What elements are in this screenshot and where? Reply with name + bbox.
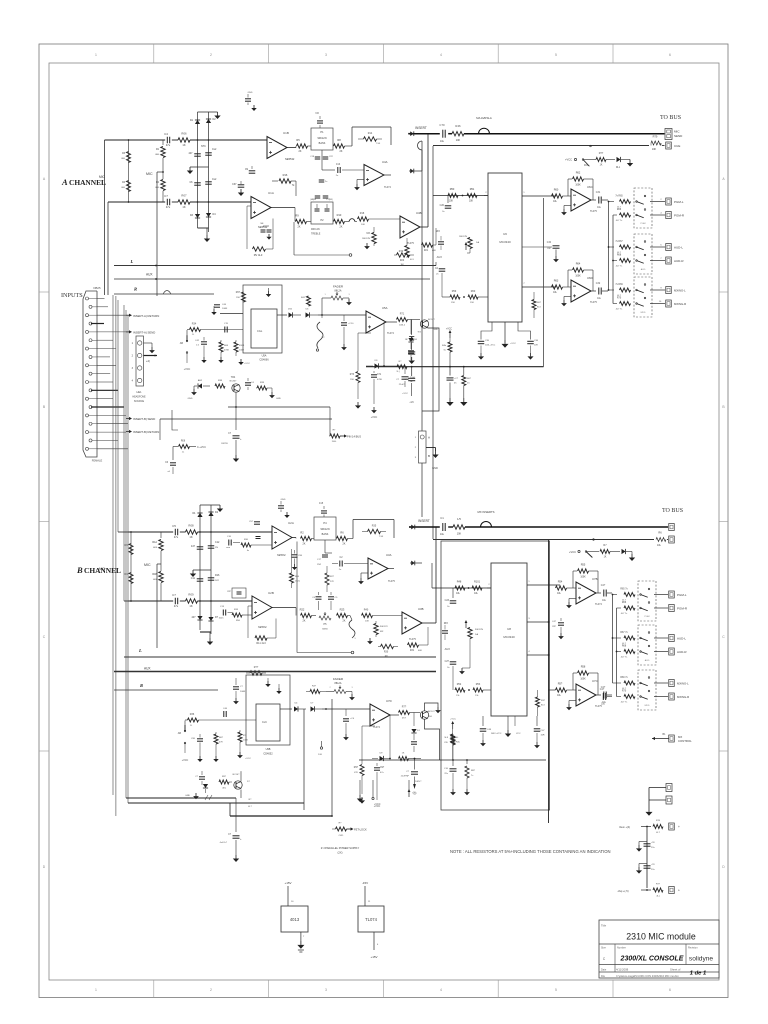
mute emitter wire down to C7 cap <box>235 393 237 431</box>
svg-text:R14: R14 <box>368 132 373 135</box>
B fader cap C with ground left <box>233 686 239 688</box>
resistor R3B vertical <box>129 544 133 555</box>
wire from -15V to TL074 <box>364 886 366 906</box>
svg-text:-Vap +(-5): -Vap +(-5) <box>617 889 629 893</box>
B AUD-R switch <box>640 651 642 653</box>
resistor R48 B <box>455 586 465 590</box>
resistor R2 vertical <box>162 172 164 179</box>
svg-text:TL074: TL074 <box>387 332 394 335</box>
arrow label INSERT-B SEND <box>126 418 129 420</box>
svg-text:DA: DA <box>475 633 479 636</box>
svg-text:C37: C37 <box>232 183 237 186</box>
svg-text:VCC: VCC <box>516 733 521 735</box>
capacitor CL4B <box>208 577 215 579</box>
AB select switch <box>186 340 188 342</box>
connector B MXING-L <box>654 682 668 684</box>
capacitor C10 with ground at op-amp input <box>343 315 345 321</box>
svg-text:U9B: U9B <box>266 748 271 751</box>
svg-text:R65 7s: R65 7s <box>620 589 628 591</box>
wiper column capacitor C18 <box>315 156 321 158</box>
PGM-R switch <box>636 214 638 216</box>
svg-text:CLK: CLK <box>262 721 267 724</box>
svg-text:C4?: C4? <box>600 688 605 691</box>
B output feed resistors PGM-L <box>612 594 617 596</box>
svg-text:MXD: MXD <box>645 705 650 707</box>
svg-text:U3A: U3A <box>386 553 392 557</box>
op-amp U2A channel B <box>272 526 292 549</box>
U6C output series capacitor <box>591 199 596 201</box>
cap below rail at x411 with +VC <box>411 367 413 376</box>
ground at fader cold end <box>348 298 350 299</box>
op-amp U1A <box>251 197 271 219</box>
svg-text:INPUTS: INPUTS <box>61 292 83 299</box>
svg-text:Title: Title <box>601 924 607 928</box>
svg-text:R62: R62 <box>576 172 581 175</box>
svg-text:3: 3 <box>325 53 327 57</box>
U6C feedback resistor loop <box>566 193 571 195</box>
svg-text:R55: R55 <box>581 564 586 567</box>
svg-text:GND: GND <box>281 499 286 501</box>
resistor R49 B <box>472 586 482 590</box>
svg-text:R104: R104 <box>239 345 245 347</box>
svg-text:88L2A: 88L2A <box>335 682 342 685</box>
svg-text:B4S6: B4S6 <box>322 629 328 631</box>
svg-text:BC10?: BC10? <box>233 774 240 776</box>
svg-text:R79: R79 <box>653 135 658 139</box>
insert node diamond B2 <box>411 561 415 566</box>
svg-text:5: 5 <box>555 988 557 992</box>
svg-text:1K: 1K <box>189 535 192 539</box>
svg-text:(2X): (2X) <box>338 851 343 855</box>
U4B feedback resistor vertical <box>405 246 409 257</box>
B EQ row 2 resistor <box>301 613 312 617</box>
svg-text:R9: R9 <box>295 214 299 218</box>
B long vertical right bus <box>548 540 550 823</box>
clamp mid rail to ground <box>190 166 209 168</box>
U7D feedback capacitor vertical <box>374 767 380 769</box>
svg-text:10R: 10R <box>534 345 538 347</box>
diode D4B <box>208 617 213 621</box>
resistor R41 vertical <box>307 296 311 306</box>
svg-text:CL2: CL2 <box>212 148 217 151</box>
diode D1B <box>197 513 202 517</box>
svg-text:INSERT-A) RETURN: INSERT-A) RETURN <box>133 314 159 318</box>
diode D3B <box>197 616 202 620</box>
svg-text:C4?: C4? <box>601 584 606 587</box>
svg-text:FET-LOCK: FET-LOCK <box>354 828 367 832</box>
svg-text:CD4052: CD4052 <box>263 753 273 756</box>
svg-text:U4A: U4A <box>382 160 388 164</box>
svg-text:TL075: TL075 <box>590 301 597 304</box>
B cap C90 with ground <box>197 738 203 740</box>
bus bundle vertical 6 <box>127 315 129 803</box>
op-amp U6D <box>571 280 591 302</box>
IC U8 MC3340 box <box>491 563 527 716</box>
svg-text:R64: R64 <box>576 263 581 266</box>
svg-text:4L7 7s: 4L7 7s <box>621 657 628 659</box>
svg-text:CGL: CGL <box>257 329 263 333</box>
svg-text:240V?: 240V? <box>415 781 422 783</box>
resistor R1 vertical <box>162 140 164 145</box>
ground under MX pot B <box>369 638 371 641</box>
B fader feedback resistor top <box>250 671 262 675</box>
svg-text:P1: P1 <box>320 130 324 134</box>
svg-text:+: + <box>678 889 680 893</box>
svg-text:R40: R40 <box>364 609 369 612</box>
capacitor C70 horizontal <box>224 327 226 333</box>
svg-text:24/25V: 24/25V <box>221 443 228 445</box>
B compressor shield box <box>441 541 550 810</box>
B AUD switch dashed box <box>638 625 656 665</box>
ground under gain B <box>469 639 471 669</box>
ground at B fader cold end <box>351 692 353 695</box>
B mute collector wire <box>240 772 242 781</box>
svg-text:90K12N: 90K12N <box>475 629 483 631</box>
channel B TO BUS thick wire <box>409 526 440 528</box>
arrow label INSERT-A RETURN <box>126 314 129 316</box>
capacitor C7 22uF NP <box>384 365 405 367</box>
B 4052 output wire <box>280 708 292 710</box>
svg-text:U8: U8 <box>507 627 511 631</box>
B fader long vertical 2 <box>331 699 333 816</box>
connector B AUD-L <box>654 637 668 639</box>
svg-text:R59: R59 <box>452 290 457 293</box>
B MXING-L switch <box>640 682 642 684</box>
DB25 pin wires to bus bundle <box>97 298 105 300</box>
svg-text:10K: 10K <box>365 621 369 623</box>
resistor R3 vertical A <box>127 152 131 163</box>
ground under mx pot <box>366 243 368 246</box>
ground inside B fader box <box>267 678 269 681</box>
resistor below rail at x463 with ground <box>463 367 465 375</box>
svg-text:R58: R58 <box>581 666 586 669</box>
svg-text:22uF/NP: 22uF/NP <box>401 776 410 778</box>
fader wiper wire to op-amp U5A <box>336 289 338 292</box>
diode D3 <box>195 214 200 218</box>
svg-text:CONTROL: CONTROL <box>678 739 692 743</box>
svg-text:+VCC: +VCC <box>510 343 516 345</box>
svg-text:C7: C7 <box>164 194 168 198</box>
capacitor C24 B <box>450 661 457 663</box>
svg-text:BC10?: BC10? <box>428 711 435 713</box>
hop symbol above left bracket <box>163 291 171 295</box>
B vertical feed left <box>612 595 614 684</box>
resistor R104 vertical with +VCC <box>234 342 238 352</box>
svg-text:4: 4 <box>440 53 442 57</box>
resistor R79 on CUE line <box>651 141 661 145</box>
svg-text:R31: R31 <box>410 650 415 652</box>
svg-text:TL074: TL074 <box>384 186 391 189</box>
A shield box bottom rail <box>366 366 544 368</box>
IC U5 CD4066 box <box>251 309 277 348</box>
svg-text:U6C: U6C <box>587 185 593 189</box>
svg-text:U5A: U5A <box>382 306 388 310</box>
svg-text:2K: 2K <box>340 226 343 229</box>
svg-text:BC10?: BC10? <box>428 319 435 321</box>
svg-text:10K: 10K <box>469 201 474 203</box>
resistor vertical with ground mid <box>219 342 223 352</box>
svg-text:C31: C31 <box>596 191 601 194</box>
svg-text:MA AVRSLA: MA AVRSLA <box>476 116 492 120</box>
capacitor C13 into U4A <box>337 167 339 173</box>
MXING-L feed resistor <box>608 289 610 291</box>
B capacitor C46 horizontal <box>223 711 225 717</box>
resistor R06 bottom left to +VCC <box>179 445 190 449</box>
series capacitor C70 on bus <box>442 130 444 138</box>
svg-text:AUD: AUD <box>641 268 646 271</box>
svg-text:150L: 150L <box>332 441 338 443</box>
B PGM switch dashed box <box>638 581 656 621</box>
ground at U4A plus input <box>357 179 364 181</box>
svg-text:R36: R36 <box>190 713 195 716</box>
svg-text:7s R69: 7s R69 <box>615 284 623 286</box>
svg-text:B: B <box>76 565 83 575</box>
capacitor CF1 on Vaux rail <box>644 843 651 845</box>
A/B connector lower vertical <box>421 463 423 517</box>
svg-text:+VCC: +VCC <box>244 363 250 365</box>
vertical feed line right <box>612 215 614 304</box>
Vaux vertical wire down <box>646 827 648 889</box>
svg-text:CWL: CWL <box>339 835 345 837</box>
EQ row 1 resistor R5 <box>297 144 308 148</box>
B fader diode 2 <box>311 706 315 711</box>
svg-text:R5?: R5? <box>558 683 563 686</box>
transistor jog wire down to A/B connector <box>422 328 439 411</box>
resistor R18 to U4B <box>358 217 369 221</box>
diode column ground arrow above rail <box>411 357 413 361</box>
svg-text:R71: R71 <box>400 313 405 316</box>
svg-text:+C10: +C10 <box>348 323 354 325</box>
svg-text:+VCC: +VCC <box>245 758 251 760</box>
capacitor CL1 <box>194 153 201 155</box>
mx inserts coil symbol <box>481 522 492 528</box>
PSU resistor vertical with ground <box>466 759 468 761</box>
svg-text:L: L <box>130 259 134 264</box>
svg-text:+: + <box>678 825 680 829</box>
cap and ground right of U2A <box>292 554 298 556</box>
svg-text:MC3340: MC3340 <box>499 240 511 244</box>
capacitor C14 B wiper <box>322 554 328 556</box>
U7C ground <box>569 700 576 702</box>
channel A mic input wire L <box>105 139 166 141</box>
svg-text:FADER: FADER <box>333 285 344 289</box>
svg-text:R101: R101 <box>474 581 481 584</box>
MXING-R switch <box>636 303 638 305</box>
svg-text:C2?: C2? <box>445 660 450 663</box>
svg-text:4L7 7s: 4L7 7s <box>616 309 623 311</box>
ground top of clamp <box>217 112 219 116</box>
B treble pot P5 <box>319 616 331 620</box>
PGM-R feed resistor 4K7 <box>613 214 617 216</box>
mic B bias vertical <box>156 564 158 648</box>
svg-text:R07: R07 <box>181 194 187 198</box>
arrow label INSERT-B RETURN <box>126 431 129 433</box>
svg-text:MXD: MXD <box>641 312 646 314</box>
svg-text:2: 2 <box>210 988 212 992</box>
capacitor above bass pot <box>317 120 323 122</box>
svg-text:+VC: +VC <box>409 402 414 404</box>
svg-text:22uF?: 22uF? <box>399 384 406 386</box>
svg-text:10K: 10K <box>652 148 657 151</box>
hop of insert vertical over CUE line <box>418 141 422 150</box>
B mute rail 2 thick <box>128 802 304 804</box>
svg-text:R5: R5 <box>296 138 300 142</box>
svg-text:R9?: R9? <box>354 767 359 769</box>
svg-text:1K: 1K <box>604 557 607 559</box>
svg-text:C15: C15 <box>319 503 324 505</box>
svg-text:47K: 47K <box>219 742 223 744</box>
connector Vaux <box>669 823 675 830</box>
svg-text:R52: R52 <box>457 683 462 686</box>
svg-text:C:\planos-megaPL\CIRC.CON 2320: C:\planos-megaPL\CIRC.CON 2320\2310 MIC … <box>616 974 679 978</box>
svg-text:AUD-R: AUD-R <box>674 259 684 263</box>
title block row line under title <box>599 943 719 945</box>
series capacitor C1 on B bus <box>442 523 444 531</box>
op-amp U4B <box>400 216 420 238</box>
ground mid clamp <box>189 167 191 171</box>
title block vertical divider size/number <box>614 944 616 972</box>
svg-text:MIC: MIC <box>674 130 680 134</box>
svg-text:C13: C13 <box>336 164 341 166</box>
svg-text:GND: GND <box>432 466 438 470</box>
svg-text:7s R67: 7s R67 <box>615 241 623 243</box>
PGM-L feed resistor 4K7 <box>608 201 610 203</box>
svg-text:47u: 47u <box>166 205 171 209</box>
svg-text:2: 2 <box>210 53 212 57</box>
feedback resistor R3x 46K <box>408 643 419 647</box>
op-amp U4A treble <box>364 165 384 186</box>
IC U9 CD4052 box <box>256 704 280 741</box>
B diode D9 horizontal <box>380 756 384 761</box>
bus wire AUX channel B <box>114 671 436 673</box>
left strip zone dividers <box>39 291 49 293</box>
cue switch <box>582 159 584 161</box>
svg-text:R60: R60 <box>471 290 476 293</box>
ground under 4013 <box>300 932 302 941</box>
svg-text:R73: R73 <box>350 374 355 376</box>
mic bus jumper coil symbol <box>479 128 490 134</box>
svg-text:U4B: U4B <box>416 211 422 215</box>
HE1 pin2 thick wire <box>144 355 158 357</box>
svg-text:AUD-L: AUD-L <box>677 637 686 641</box>
junction node wire L <box>197 139 199 141</box>
A/B select connector box <box>419 431 427 463</box>
svg-text:4?K: 4?K <box>354 772 358 774</box>
B vertical feed right <box>616 608 618 697</box>
B fader R41 resistor <box>310 690 320 694</box>
resistor R54 into U7B <box>556 586 567 590</box>
B fader wiper to op-amp U7D <box>322 708 370 710</box>
svg-text:solidyne: solidyne <box>689 956 714 963</box>
U4B feedback resistor 1M <box>397 253 410 257</box>
svg-text:4L7 7s: 4L7 7s <box>621 702 628 704</box>
inner bias column vertical B <box>130 532 132 601</box>
transistor BC10 mid <box>420 320 428 328</box>
comp cap bars near U2A <box>256 536 261 538</box>
svg-text:R68: R68 <box>617 255 622 257</box>
connector B PGM-R <box>654 607 668 609</box>
PGM-L switch <box>636 201 638 203</box>
capacitor CF2 on Vaux rail <box>644 865 651 867</box>
resistor R30 into U2A <box>241 543 251 547</box>
B capacitor C 22uF NP <box>409 758 422 760</box>
svg-text:C34: C34 <box>547 242 552 244</box>
left bracket wires near DB25 bottom <box>159 419 161 440</box>
channel A mic input wire R <box>108 201 165 203</box>
U7B output capacitor <box>596 592 601 594</box>
B bottom resistors <box>455 688 465 692</box>
svg-text:4/11/2008: 4/11/2008 <box>616 968 629 972</box>
B EQ row 1 resistor <box>301 536 312 540</box>
resistor R27 vertical under wiper <box>325 573 329 585</box>
B mute rail 1 thick <box>126 797 236 799</box>
U3B output wire to insert B <box>422 622 436 624</box>
svg-text:U7D: U7D <box>386 699 392 703</box>
hop wire at fader section <box>321 315 323 318</box>
right strip zone dividers <box>719 291 728 293</box>
svg-text:AUD: AUD <box>645 659 650 662</box>
svg-text:2K: 2K <box>299 150 302 153</box>
B mute rail 3 thick <box>230 815 332 817</box>
channel B CUE wire <box>433 539 654 541</box>
svg-text:TREBLE: TREBLE <box>311 233 321 236</box>
B mute hatch marks <box>205 795 212 800</box>
bottom right vertical wire <box>648 788 650 809</box>
svg-text:AB: AB <box>180 342 184 345</box>
svg-text:2K: 2K <box>303 543 306 546</box>
mute long rail 2 <box>160 418 332 420</box>
svg-text:R6: R6 <box>658 531 662 535</box>
svg-text:1 de 1: 1 de 1 <box>690 971 706 977</box>
svg-text:R35: R35 <box>372 525 377 528</box>
clamp B column right vertical <box>210 505 212 634</box>
B mute ground GND <box>195 793 197 796</box>
insert vertical wire 2 <box>432 146 434 539</box>
svg-text:22P: 22P <box>552 626 556 628</box>
Vaux series resistor R76 <box>653 825 663 829</box>
capacitor C44 mid with ground <box>558 622 564 624</box>
mid grounds near PSU box <box>359 780 361 795</box>
insert node diamond 2 <box>410 169 414 174</box>
svg-text:INSERT: INSERT <box>418 519 430 523</box>
svg-text:R13: R13 <box>337 213 342 217</box>
svg-text:TR4: TR4 <box>231 376 236 379</box>
B cue resistor <box>600 550 610 554</box>
svg-text:FEMALE: FEMALE <box>92 459 103 463</box>
svg-text:6: 6 <box>669 988 671 992</box>
svg-text:27K: 27K <box>330 581 334 583</box>
diode D8 vertical right <box>410 320 412 335</box>
connector B AUD-R <box>654 651 668 653</box>
mute transistor TR4 BC307 <box>232 384 240 392</box>
junction nodes channel B <box>199 531 201 533</box>
AUD-R switch <box>636 260 638 262</box>
svg-text:U7C: U7C <box>592 679 598 683</box>
ground inside 4066 box top <box>268 288 270 291</box>
svg-text:+4): +4) <box>146 359 150 363</box>
svg-text:100L2: 100L2 <box>399 325 406 327</box>
BC107 collector bracket and ground <box>425 703 439 711</box>
svg-text:R70: R70 <box>617 298 622 300</box>
svg-text:R06: R06 <box>181 132 187 136</box>
bottom right connector stack box 1 <box>649 787 666 789</box>
capacitor CL4 <box>205 181 212 183</box>
svg-text:C-+VCC: C-+VCC <box>197 446 206 449</box>
svg-text:U2B: U2B <box>268 591 274 595</box>
svg-text:447: 447 <box>189 152 194 155</box>
svg-text:+15V: +15V <box>284 881 291 885</box>
resistor R3x into U2B <box>232 613 242 617</box>
